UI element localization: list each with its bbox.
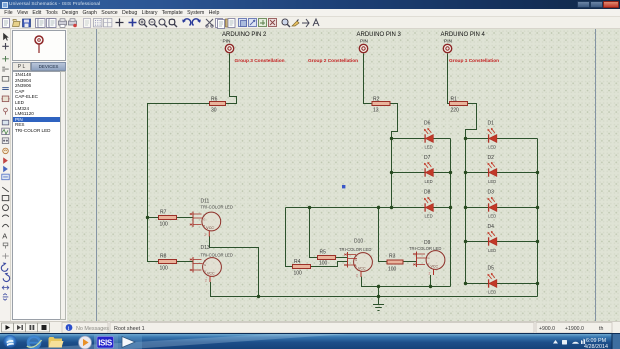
svg-text:+1900.0: +1900.0 xyxy=(565,326,584,332)
svg-text:D4: D4 xyxy=(488,224,495,230)
svg-text:100: 100 xyxy=(319,260,328,266)
svg-text:LED: LED xyxy=(425,145,433,150)
svg-text:13: 13 xyxy=(373,108,379,114)
svg-text:ARDUINO PIN 4: ARDUINO PIN 4 xyxy=(441,32,486,38)
svg-text:D10: D10 xyxy=(354,239,363,245)
svg-text:D2: D2 xyxy=(488,155,495,161)
svg-text:PIN: PIN xyxy=(223,38,232,44)
svg-text:LED: LED xyxy=(425,214,433,219)
svg-text:100: 100 xyxy=(160,266,169,272)
svg-text:100: 100 xyxy=(160,222,169,228)
svg-text:No Messages: No Messages xyxy=(76,326,109,332)
svg-text:R6: R6 xyxy=(211,97,218,103)
svg-text:LED: LED xyxy=(425,179,433,184)
svg-text:Group 2 Constellation: Group 2 Constellation xyxy=(308,58,358,64)
svg-text:LED: LED xyxy=(488,214,496,219)
svg-text:R5: R5 xyxy=(320,249,327,255)
svg-text:LED: LED xyxy=(488,290,496,295)
svg-text:PIN: PIN xyxy=(360,38,369,44)
svg-text:th: th xyxy=(599,326,603,332)
svg-text:D8: D8 xyxy=(424,190,431,196)
svg-text:D7: D7 xyxy=(424,155,431,161)
svg-text:D13: D13 xyxy=(201,245,210,251)
svg-text:100: 100 xyxy=(388,267,397,273)
svg-text:PIN: PIN xyxy=(444,38,453,44)
svg-text:ARDUINO PIN 3: ARDUINO PIN 3 xyxy=(357,32,402,38)
svg-text:TRI-COLOR LED: TRI-COLOR LED xyxy=(201,204,233,209)
svg-text:R3: R3 xyxy=(389,253,396,259)
svg-text:LED: LED xyxy=(488,248,496,253)
svg-text:+900.0: +900.0 xyxy=(539,326,555,332)
svg-text:100: 100 xyxy=(294,270,303,276)
svg-text:D3: D3 xyxy=(488,190,495,196)
svg-text:TRI-COLOR LED: TRI-COLOR LED xyxy=(409,246,441,251)
svg-text:R8: R8 xyxy=(160,254,167,260)
svg-text:TRI-COLOR LED: TRI-COLOR LED xyxy=(201,252,233,257)
svg-text:R1: R1 xyxy=(451,97,458,103)
svg-text:LED: LED xyxy=(488,145,496,150)
svg-text:R2: R2 xyxy=(373,97,380,103)
svg-text:LED: LED xyxy=(488,179,496,184)
svg-text:TRI-COLOR LED: TRI-COLOR LED xyxy=(339,247,371,252)
svg-text:R7: R7 xyxy=(160,210,167,216)
svg-text:ISIS: ISIS xyxy=(98,339,113,348)
svg-text:Group 3 Constellation: Group 3 Constellation xyxy=(235,58,285,64)
svg-text:R4: R4 xyxy=(294,259,301,265)
svg-text:D5: D5 xyxy=(488,266,495,272)
svg-text:Root sheet 1: Root sheet 1 xyxy=(114,326,145,332)
svg-text:D1: D1 xyxy=(488,121,495,127)
svg-text:4/28/2014: 4/28/2014 xyxy=(584,344,608,349)
svg-text:30: 30 xyxy=(211,108,217,114)
svg-text:220: 220 xyxy=(451,108,460,114)
svg-text:D6: D6 xyxy=(424,121,431,127)
svg-text:ARDUINO PIN 2: ARDUINO PIN 2 xyxy=(222,32,267,38)
svg-text:Group 1 Constellation: Group 1 Constellation xyxy=(449,58,499,64)
